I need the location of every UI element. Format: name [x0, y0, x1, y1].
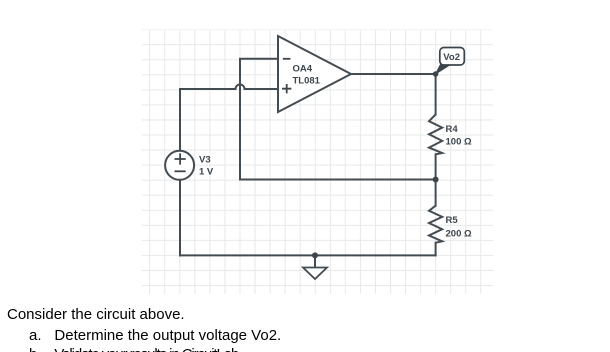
- ground: [303, 268, 327, 280]
- resistor R4 100 Ω: [429, 115, 472, 155]
- voltage source V3 1 V: [165, 151, 214, 180]
- wire: R5 bottom to return wire: [435, 243, 437, 256]
- node Vo2 flag: [436, 48, 465, 75]
- caption text: [0, 0, 610, 1]
- svg-text:V3: V3: [199, 155, 211, 166]
- wire: V3 top lead: [179, 89, 181, 151]
- svg-text:200 Ω: 200 Ω: [446, 229, 472, 240]
- svg-text:R5: R5: [446, 215, 459, 226]
- wire: feedback horizontal to R4/R5 junction: [240, 179, 436, 181]
- wire: V3 bottom lead: [179, 180, 181, 256]
- schematic grid background: [142, 30, 493, 295]
- svg-text:R4: R4: [446, 124, 459, 135]
- junction: ground node: [312, 252, 318, 258]
- svg-text:1 V: 1 V: [199, 167, 214, 178]
- svg-text:OA4: OA4: [293, 64, 313, 75]
- wire: output vertical to R4: [435, 74, 437, 115]
- wire: R4 to junction to R5: [435, 154, 437, 205]
- wire: non-inverting input with hop over feedback wire: [180, 85, 278, 90]
- svg-text:100 Ω: 100 Ω: [446, 137, 472, 148]
- svg-text:Vo2: Vo2: [443, 52, 460, 63]
- junction: output corner node: [433, 71, 439, 77]
- op-amp OA4 TL081: [278, 36, 351, 112]
- wire: op-amp output: [351, 73, 436, 75]
- junction: R4/R5 node: [433, 177, 439, 183]
- resistor R5 200 Ω: [429, 206, 472, 243]
- wire: ground stub: [314, 255, 316, 267]
- wire: bottom return wire: [180, 254, 436, 256]
- svg-text:TL081: TL081: [293, 76, 321, 87]
- wire: inverting input to feedback corner: [240, 59, 278, 180]
